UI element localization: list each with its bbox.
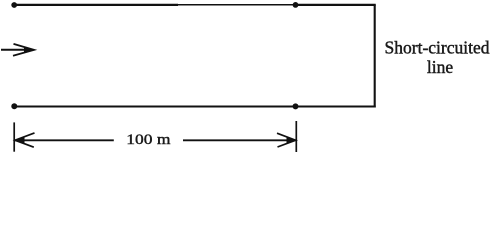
input arrow head: [13, 44, 34, 56]
dimension line left segment: [15, 139, 114, 141]
node: top junction dot: [293, 2, 299, 8]
node: bottom junction dot: [293, 103, 299, 109]
svg-text:100 m: 100 m: [126, 132, 170, 148]
dimension line right segment: [183, 139, 295, 141]
dimension tick right: [295, 121, 297, 152]
svg-text:line: line: [427, 57, 453, 77]
node: top-left terminal dot: [11, 2, 17, 8]
svg-text:Short-circuited: Short-circuited: [385, 38, 490, 58]
wire: top conductor middle segment: [178, 4, 293, 6]
wire: short-circuit vertical stub: [374, 5, 376, 108]
dimension arrowhead left: [15, 133, 35, 147]
wire: top conductor left segment: [13, 4, 178, 6]
dimension arrowhead right: [277, 133, 296, 147]
wire: bottom conductor: [13, 105, 376, 107]
input arrow shaft: [1, 49, 26, 51]
node: bottom-left terminal dot: [11, 103, 17, 109]
dimension tick left: [13, 122, 15, 151]
wire: top conductor right segment: [293, 4, 376, 6]
